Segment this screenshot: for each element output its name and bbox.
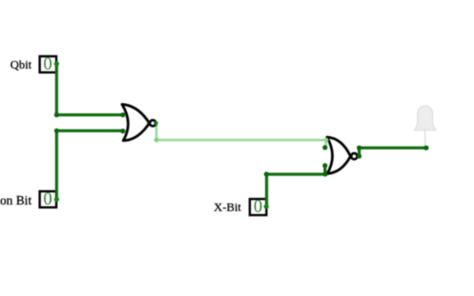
node: output corner <box>357 145 362 150</box>
node: light corner 2 <box>324 138 329 143</box>
wire: to gate1 top input <box>57 113 123 116</box>
wire: to gate2 bottom stub <box>267 173 328 176</box>
node: stub corner <box>323 172 328 177</box>
wire: X-Bit output up <box>265 174 268 206</box>
node: X-Bit corner <box>264 172 269 177</box>
svg-text:0: 0 <box>43 53 52 73</box>
wire: stub up to gate2 bottom input <box>324 166 327 175</box>
svg-text:Qbit: Qbit <box>10 58 32 72</box>
wire: gate2 output up stub <box>358 148 361 156</box>
node: LED input <box>424 145 429 150</box>
wire: gate1 output high (light green) <box>156 123 327 147</box>
node: gate1 input A <box>120 112 125 117</box>
node: corner left top <box>54 112 59 117</box>
node: gate2 output <box>357 154 362 159</box>
input pin Qbit box <box>40 53 57 73</box>
NOR gate U1 <box>122 104 149 140</box>
input pin (carry) on Bit box <box>40 188 57 208</box>
LED D1 (off, gray bulb) <box>415 106 436 146</box>
NOR gate U2 <box>327 137 351 174</box>
node: on Bit pin <box>54 197 59 202</box>
NOR gate U1 output bubble <box>150 120 156 126</box>
svg-text:0: 0 <box>254 196 263 216</box>
svg-text:0: 0 <box>43 188 52 208</box>
node: gate2 input A <box>323 145 328 150</box>
wire: carry-on-bit up <box>55 131 58 200</box>
node: gate2 input B <box>323 163 328 168</box>
node: Qbit pin <box>54 61 59 66</box>
node: X-Bit pin <box>264 204 269 209</box>
node: gate1 output <box>154 121 158 125</box>
node: light corner 1 <box>154 138 159 143</box>
wire: Qbit output down <box>55 64 58 115</box>
svg-text:on Bit: on Bit <box>0 194 32 208</box>
wire: gate2 output to LED <box>359 146 426 149</box>
node: gate1 input B <box>120 129 125 134</box>
svg-text:X-Bit: X-Bit <box>214 200 242 214</box>
NOR gate U2 output bubble <box>351 153 357 159</box>
input pin X-Bit box <box>250 196 267 216</box>
node: corner left bottom <box>54 128 59 133</box>
wire: to gate1 bottom input <box>57 129 123 132</box>
